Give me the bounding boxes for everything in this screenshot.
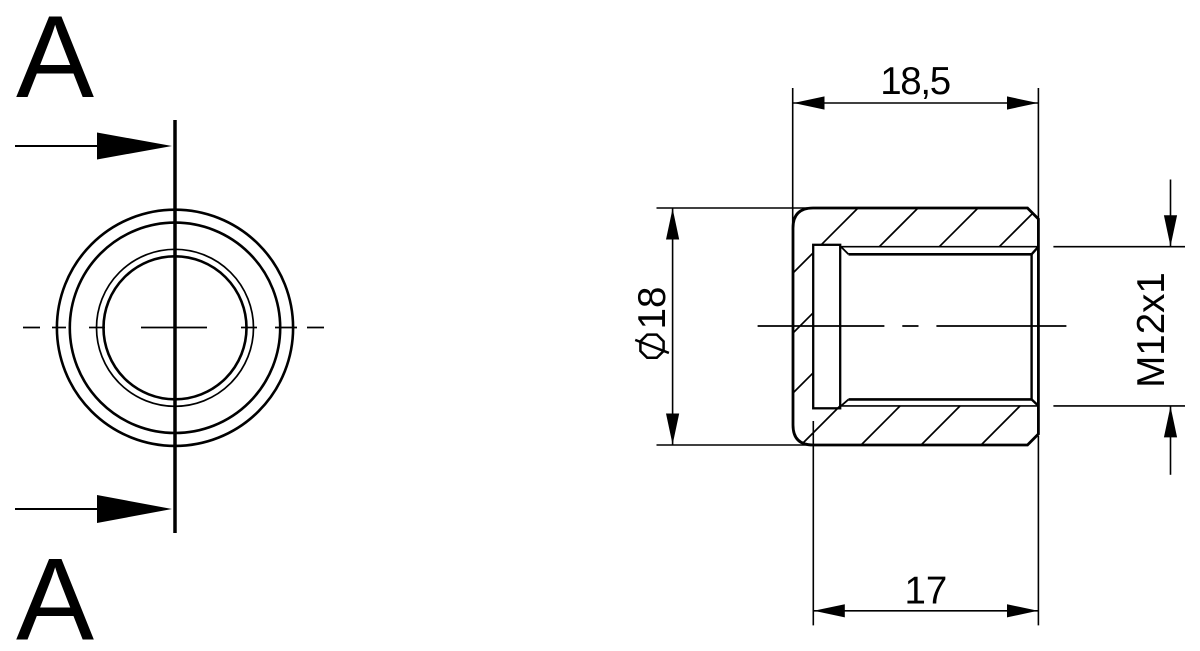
- bore circle (thread minor): [104, 256, 247, 399]
- entry chamfer vertical line: [1030, 254, 1032, 399]
- svg-text:M12x1: M12x1: [1130, 272, 1173, 388]
- dimension dia18 extension lines: [657, 207, 816, 209]
- center line of section view: [758, 325, 1067, 327]
- outer circle (body OD 18): [57, 210, 293, 446]
- thread major line top: [841, 246, 1038, 248]
- svg-text:A: A: [16, 0, 94, 122]
- thread runout bottom: [841, 399, 849, 406]
- dimension 18,5 extension lines: [792, 88, 794, 230]
- thread major circle M12: [97, 249, 254, 406]
- dimension 18,5 arrowheads: [794, 96, 825, 109]
- section arrow bottom: [15, 495, 172, 523]
- dimension M12x1 extension lines: [1053, 246, 1185, 248]
- dimension 18,5 line: [793, 102, 1038, 104]
- entry chamfer top: [1032, 247, 1039, 255]
- cutting plane line A-A: [173, 120, 177, 533]
- svg-text:18,5: 18,5: [880, 60, 951, 103]
- hatching: [793, 208, 1033, 445]
- chamfer edge circle: [70, 223, 280, 433]
- dimension 17 extension lines: [812, 421, 814, 625]
- entry chamfer bottom: [1032, 399, 1039, 406]
- svg-text:17: 17: [904, 570, 947, 613]
- section body outline: [793, 208, 1038, 445]
- horizontal center line of front view: [23, 327, 324, 329]
- dimension 17 line: [813, 610, 1038, 612]
- section arrow top: [15, 133, 172, 160]
- dimension M12x1 line segments: [1170, 180, 1172, 247]
- dimension dia18 line: [672, 208, 674, 445]
- bore line bottom: [849, 398, 1032, 401]
- dimension dia18 arrowheads: [666, 209, 679, 240]
- svg-text:18: 18: [631, 287, 674, 330]
- diameter symbol: [635, 335, 669, 358]
- thread undercut groove: [813, 245, 840, 408]
- dimension 17 arrowheads: [814, 604, 845, 617]
- thread runout top: [841, 247, 849, 255]
- thread major line bottom: [841, 405, 1038, 407]
- svg-text:A: A: [16, 534, 94, 651]
- dimension M12x1 arrowheads: [1164, 215, 1177, 246]
- bore line top: [849, 253, 1032, 256]
